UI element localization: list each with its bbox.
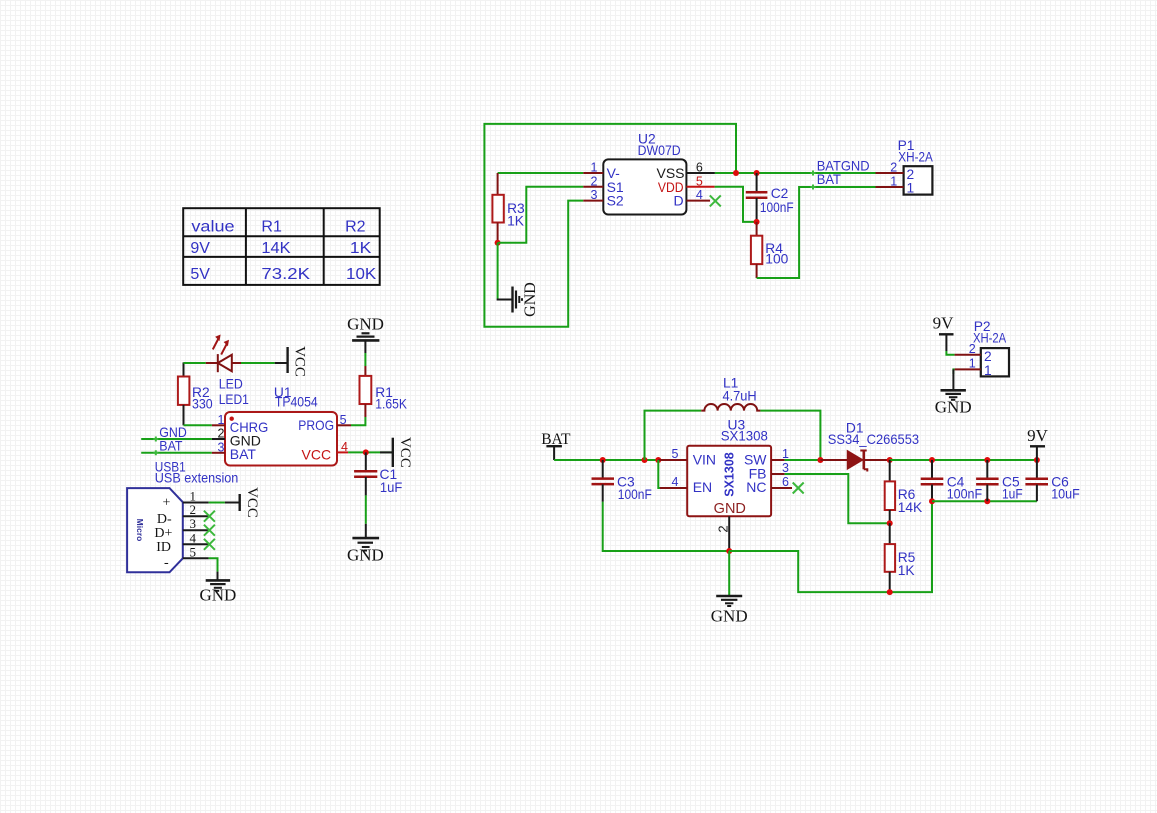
- svg-text:GND: GND: [347, 546, 384, 565]
- wire capacitor bottom rail: [932, 500, 1037, 502]
- svg-text:2: 2: [218, 427, 225, 441]
- svg-text:1.65K: 1.65K: [375, 396, 407, 411]
- svg-text:3: 3: [218, 440, 225, 454]
- svg-text:2: 2: [890, 161, 897, 175]
- node GND center junction: [726, 548, 732, 554]
- svg-text:1: 1: [890, 174, 897, 188]
- svg-text:1K: 1K: [898, 563, 916, 578]
- svg-text:BAT: BAT: [817, 172, 842, 187]
- pin 1 U3 SW: [771, 459, 785, 461]
- pin 2 USB: [183, 515, 209, 517]
- svg-text:4: 4: [341, 440, 348, 454]
- svg-text:R2: R2: [345, 218, 366, 235]
- node C1 junction: [363, 449, 369, 455]
- svg-text:VCC: VCC: [397, 437, 413, 468]
- svg-text:GND: GND: [347, 315, 384, 334]
- svg-text:9V: 9V: [1027, 426, 1049, 445]
- svg-text:VIN: VIN: [693, 451, 716, 467]
- svg-text:10uF: 10uF: [1051, 486, 1080, 501]
- node C4 bottom junction: [929, 498, 935, 504]
- svg-text:USB extension: USB extension: [155, 471, 239, 486]
- svg-text:VCC: VCC: [302, 447, 332, 463]
- pin 4 USB: [183, 543, 209, 545]
- pin 4 U3 EN: [658, 460, 687, 489]
- svg-text:14K: 14K: [261, 240, 291, 257]
- no-connect X pin4: [204, 539, 215, 550]
- pin 1 P2: [955, 368, 981, 370]
- resistor R1: [360, 366, 408, 417]
- resistor R4: [751, 222, 789, 278]
- ground GND (rotated): [497, 282, 539, 317]
- svg-text:SX1308: SX1308: [721, 428, 769, 443]
- node VSS C2 junction: [754, 170, 760, 176]
- resistor R6: [885, 460, 923, 523]
- capacitor C3: [592, 460, 652, 502]
- svg-text:1K: 1K: [507, 213, 525, 228]
- node R6/R5 junction: [887, 520, 893, 526]
- svg-text:1K: 1K: [350, 240, 372, 257]
- wire GND net left: [141, 438, 212, 440]
- node D1 cathode junction: [887, 457, 893, 463]
- wire GND to R1: [364, 353, 366, 366]
- wire P2 pin1 to GND: [953, 369, 954, 374]
- node BAT label anchor: [811, 185, 816, 190]
- wire BAT net to P1: [757, 187, 876, 278]
- svg-text:9V: 9V: [933, 314, 955, 333]
- svg-text:BAT: BAT: [230, 446, 257, 462]
- svg-text:1: 1: [907, 181, 915, 196]
- svg-text:GND: GND: [159, 425, 187, 440]
- svg-text:1: 1: [969, 357, 976, 371]
- svg-text:5: 5: [340, 413, 347, 427]
- no-connect X pin2: [204, 511, 215, 522]
- wire R1 to PROG pin5: [351, 417, 365, 425]
- svg-text:NC: NC: [746, 479, 766, 495]
- wire loop top: [484, 124, 736, 327]
- pin 1 U1: [212, 424, 225, 426]
- resistor R2: [178, 362, 213, 425]
- wire loop VSS to V- left: [498, 172, 584, 174]
- pin 1 P1: [876, 186, 904, 188]
- op-amp U2 DW07D body: [603, 132, 686, 215]
- wire VSS rail: [715, 172, 876, 174]
- connector P2 XH-2A: [973, 319, 1009, 378]
- svg-text:5: 5: [190, 544, 197, 559]
- wire R2 to pin1: [184, 424, 212, 426]
- pin 4 U1: [337, 451, 348, 453]
- svg-text:XH-2A: XH-2A: [973, 331, 1007, 346]
- svg-text:GND: GND: [522, 282, 539, 317]
- capacitor C5: [976, 460, 1023, 501]
- svg-text:4.7uH: 4.7uH: [723, 388, 757, 403]
- svg-text:3: 3: [190, 516, 197, 531]
- capacitor C6: [1025, 460, 1079, 501]
- wire output rail: [890, 459, 1037, 461]
- svg-text:D+: D+: [154, 526, 172, 541]
- svg-text:+: +: [163, 496, 171, 511]
- svg-text:C2: C2: [771, 186, 789, 201]
- wire L1 to SW: [760, 411, 820, 460]
- pin 5 U1: [337, 424, 351, 426]
- svg-text:GND: GND: [935, 398, 972, 417]
- svg-text:GND: GND: [199, 586, 236, 605]
- pin 4 U2 no-connect: [686, 200, 710, 202]
- wire BAT rail: [554, 459, 660, 461]
- svg-text:S2: S2: [607, 193, 624, 209]
- pin 5 U2: [686, 186, 714, 188]
- svg-text:1: 1: [218, 413, 225, 427]
- ground GND (USB): [199, 572, 236, 605]
- svg-text:73.2K: 73.2K: [261, 266, 310, 283]
- net label GND anchor: [153, 437, 158, 442]
- pin 2 U2: [583, 186, 603, 188]
- svg-text:LED1: LED1: [219, 392, 249, 407]
- node R5 bottom junction: [887, 589, 893, 595]
- svg-text:100: 100: [765, 252, 788, 267]
- svg-text:SS34_C266553: SS34_C266553: [828, 432, 920, 447]
- wire 9V to P2 pin2: [946, 351, 954, 355]
- inductor L1: [701, 376, 760, 411]
- wire bottom GND rail: [729, 501, 932, 592]
- wire R2 top to LED: [184, 362, 206, 364]
- pin 5 U3 VIN: [658, 459, 687, 461]
- svg-text:DW07D: DW07D: [638, 143, 681, 158]
- svg-text:ID: ID: [156, 540, 171, 555]
- svg-text:D: D: [673, 193, 683, 209]
- resistor R3: [492, 173, 525, 243]
- svg-text:100nF: 100nF: [618, 487, 652, 502]
- chip U3 SX1308 body: [687, 418, 771, 517]
- connector P1 XH-2A: [898, 138, 934, 196]
- svg-text:2: 2: [969, 342, 976, 356]
- svg-text:2: 2: [984, 349, 992, 364]
- svg-text:2: 2: [591, 174, 598, 188]
- power VCC (LED): [275, 346, 308, 377]
- net label BAT anchor: [153, 450, 158, 455]
- svg-text:14K: 14K: [898, 500, 923, 515]
- svg-text:9V: 9V: [190, 240, 210, 257]
- svg-text:10K: 10K: [346, 266, 377, 283]
- svg-text:EN: EN: [693, 479, 712, 495]
- svg-text:SX1308: SX1308: [723, 452, 737, 497]
- node L1 branch junction: [642, 457, 648, 463]
- wire pin1 to VCC: [209, 502, 225, 504]
- wire VDD net: [715, 187, 757, 222]
- LED LED1: [206, 335, 249, 408]
- node C4 top junction: [929, 457, 935, 463]
- wire to ground: [497, 243, 499, 299]
- svg-text:1: 1: [782, 447, 789, 461]
- svg-text:5: 5: [672, 447, 679, 461]
- wire GND drop: [728, 551, 730, 596]
- connector USB1 body: [127, 460, 238, 573]
- pin 3 U2: [583, 200, 603, 202]
- pin 1 USB: [183, 502, 209, 504]
- capacitor C4: [921, 460, 982, 501]
- wire FB net: [785, 474, 890, 523]
- capacitor C1: [354, 452, 402, 495]
- svg-text:3: 3: [782, 461, 789, 475]
- node C2/R4 junction: [754, 219, 760, 225]
- wire BAT net left: [141, 452, 212, 454]
- power VCC (USB): [225, 487, 260, 518]
- chip U1 TP4054 body: [225, 385, 337, 465]
- node SW junction: [817, 457, 823, 463]
- svg-text:5: 5: [696, 174, 703, 188]
- svg-text:2: 2: [190, 502, 197, 517]
- wire LED to VCC: [241, 362, 275, 364]
- svg-text:VCC: VCC: [292, 346, 308, 377]
- node C3 top junction: [600, 457, 606, 463]
- power BAT netflag: [541, 431, 571, 460]
- node VSS loop junction: [733, 170, 739, 176]
- svg-text:1: 1: [591, 161, 598, 175]
- pin 2 U1: [212, 438, 225, 440]
- svg-text:D-: D-: [157, 512, 172, 527]
- no-connect X pin3: [204, 525, 215, 536]
- pin 6 U2: [686, 172, 715, 174]
- wire SW to D1: [785, 459, 821, 461]
- svg-text:BAT: BAT: [159, 439, 183, 454]
- svg-text:-: -: [164, 556, 169, 571]
- svg-text:100nF: 100nF: [760, 200, 794, 215]
- pin 2 P1: [876, 172, 904, 174]
- svg-text:value: value: [191, 218, 234, 235]
- svg-text:4: 4: [672, 475, 679, 489]
- pin 6 U3 NC no-connect: [771, 487, 792, 489]
- svg-text:6: 6: [696, 161, 703, 175]
- power VCC (U1 pin4): [380, 437, 413, 468]
- svg-text:Micro: Micro: [135, 519, 145, 542]
- pin 1 U2: [583, 172, 603, 174]
- pin 3 USB: [183, 529, 209, 531]
- svg-text:4: 4: [190, 530, 197, 545]
- svg-text:6: 6: [782, 475, 789, 489]
- pin 5 USB: [183, 557, 209, 559]
- wire S1 net: [498, 187, 584, 243]
- svg-text:5V: 5V: [190, 266, 210, 283]
- ground GND (P2): [935, 369, 972, 416]
- node C6/9V junction: [1034, 457, 1040, 463]
- svg-text:1uF: 1uF: [380, 480, 402, 495]
- ground GND (U3): [711, 596, 748, 626]
- svg-text:2: 2: [716, 525, 731, 532]
- svg-text:100nF: 100nF: [947, 486, 982, 501]
- capacitor C2: [746, 173, 794, 222]
- svg-text:1uF: 1uF: [1002, 486, 1023, 501]
- wire pin5 to GND: [209, 558, 218, 571]
- node EN branch junction: [655, 457, 661, 463]
- power 9V (output rail): [1027, 426, 1049, 460]
- svg-text:330: 330: [192, 396, 213, 411]
- node C5 bottom junction: [984, 498, 990, 504]
- svg-text:4: 4: [696, 188, 703, 202]
- node BATGND label anchor: [811, 171, 816, 176]
- power 9V (P2): [933, 314, 955, 351]
- table of resistor values: [183, 208, 380, 285]
- svg-text:LED: LED: [219, 377, 243, 392]
- diode D1 SS34: [820, 421, 919, 472]
- wire C1 to GND: [365, 495, 367, 523]
- svg-text:3: 3: [591, 188, 598, 202]
- svg-text:VCC: VCC: [244, 487, 260, 518]
- svg-text:PROG: PROG: [298, 417, 334, 433]
- svg-text:1: 1: [984, 363, 992, 378]
- svg-text:GND: GND: [711, 607, 748, 626]
- pin 2 U3 GND: [728, 516, 730, 551]
- svg-text:R1: R1: [261, 218, 282, 235]
- pin 3 U1: [212, 452, 225, 454]
- wire C3 bottom to GND rail: [603, 502, 730, 551]
- node R3 bottom junction: [495, 240, 501, 246]
- wire pin4 VCC net: [348, 451, 393, 453]
- pin 2 P2: [955, 354, 981, 356]
- node C5 top junction: [984, 457, 990, 463]
- svg-text:TP4054: TP4054: [275, 395, 318, 410]
- ground GND (below C1): [347, 524, 384, 565]
- pin 3 U3 FB: [771, 473, 785, 475]
- svg-text:GND: GND: [714, 501, 746, 517]
- svg-text:XH-2A: XH-2A: [898, 150, 933, 165]
- wire L1 branch up: [645, 411, 702, 460]
- ground GND (above R1): [347, 315, 384, 354]
- resistor R5: [885, 523, 916, 592]
